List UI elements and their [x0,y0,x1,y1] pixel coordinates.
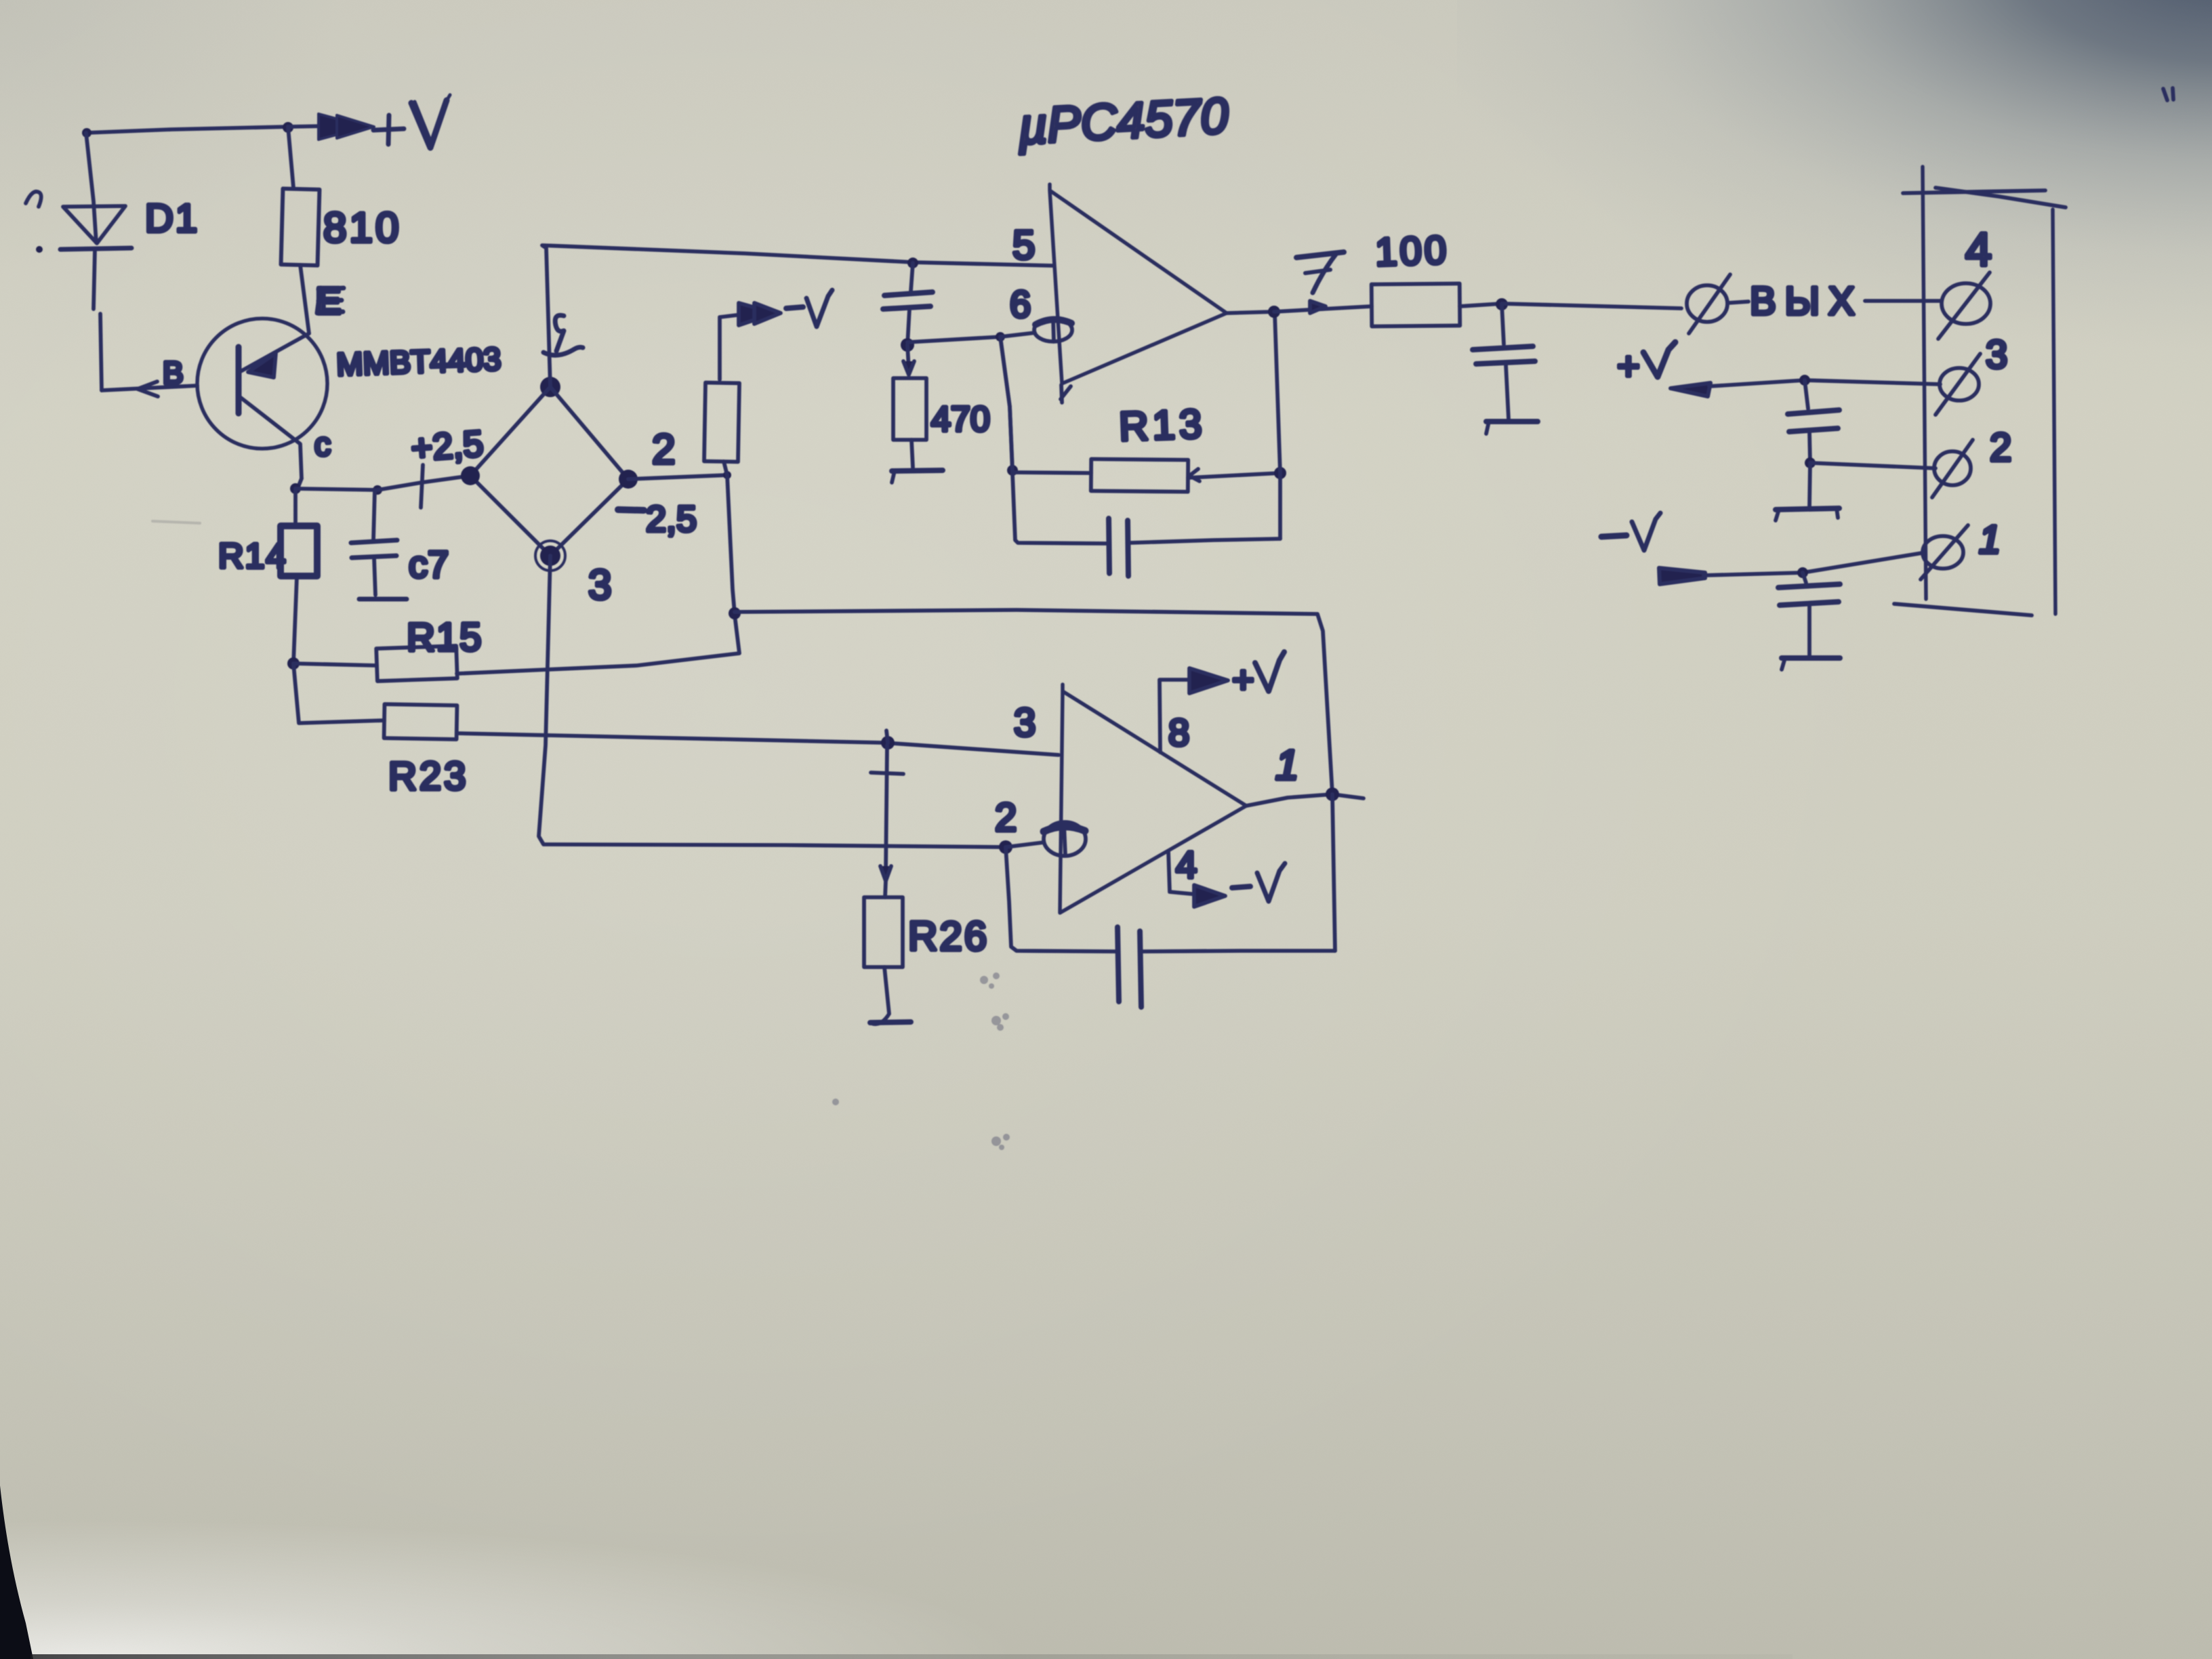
wire: D1 cathode down to base corner [94,250,102,390]
ground (below R26) [872,967,889,1024]
ground stub below pin2 node [1809,463,1810,507]
photodiode D1 cathode bar [60,248,131,249]
node: R13 right [1274,467,1286,479]
dark table edge bottom-left [0,1486,33,1659]
transistor collector segment [239,396,302,478]
resistor R13 [1012,472,1091,473]
node: pin2 junction [1805,457,1816,468]
resistor R15 [293,663,377,665]
node: C7 junction [373,485,382,495]
transistor Q1 MMBT4403 circle [197,319,327,449]
svg-text:c: c [314,427,331,463]
node: pin2 junction (U1B) [999,840,1012,854]
light arrow mark near D1 [26,192,41,207]
label 7 [1296,252,1344,258]
node: R13 left [1007,465,1018,476]
transistor emitter segment with arrow (PNP) [241,333,309,371]
svg-text:MMBT4403: MMBT4403 [335,341,501,382]
wire: R15 right lead up to feedback junction [457,615,739,674]
wire: -V to pin 1 [1704,553,1922,575]
wire: ВЫХ to connector pin 4 [1865,299,1942,303]
faint crease mark [152,521,200,523]
svg-text:+: + [1617,344,1640,388]
stray pen marks top right [2163,88,2173,100]
capacitor C7 [373,490,375,540]
wire: node1 up and right to op-amp pin 5 [542,245,1052,387]
wire: junction right to pin6 [907,337,1000,342]
wire: +V to pin 3 [1709,380,1940,386]
svg-text:µPC4570: µPC4570 [1016,87,1229,155]
svg-text:c7: c7 [409,543,449,586]
svg-text:1: 1 [1979,518,2001,562]
resistor (-V branch, unlabeled) [704,383,739,462]
wire: blob down to R26 with tick and arrow [886,745,887,874]
node: -V cap junction [1797,567,1808,578]
node: pin6/470 junction [901,338,914,352]
svg-text:2: 2 [1990,426,2011,470]
svg-text:R13: R13 [1118,401,1206,449]
wire: node2 right to -V branch [628,475,727,479]
bridge left vertex node [461,466,480,485]
wire: R14 bottom to R15 node [293,577,297,663]
U1B output wire [1246,794,1364,806]
down arrow into 470 [907,345,909,369]
svg-text:2,5: 2,5 [646,499,697,539]
wire: output down to feedback rail [1332,794,1335,951]
wire: pin6 junction down to R13 left node [1000,337,1012,470]
capacitor (-V rail) [1803,573,1806,583]
connector pin 1 circle [1923,536,1963,569]
bridge sensor: node 1 top vertex [540,377,560,397]
capacitor (pin5 to pin6) [911,263,913,291]
label +V (top left) [373,115,404,144]
wire: collector node right to C7 node [295,489,377,490]
svg-text:B: B [163,355,184,390]
connector pin 3 circle [1940,368,1979,401]
svg-text:R26: R26 [908,914,989,959]
label 1 (bridge top) [555,315,564,351]
label -V (U1B) [1232,886,1250,888]
feedback capacitor (U1B) [1006,847,1118,951]
transistor base wire with arrowhead [102,386,197,390]
svg-text:3: 3 [1014,701,1036,745]
bridge node 3 bottom vertex [540,546,560,566]
U1B pin 8 stub and +V arrow [1160,680,1194,752]
node: U1B output junction [1326,787,1339,801]
wire: collector down to R14 node [295,478,302,489]
svg-text:2: 2 [652,426,675,473]
svg-text:+: + [1232,658,1254,701]
svg-text:D1: D1 [145,197,199,241]
svg-text:5: 5 [1012,222,1035,268]
capacitor (+V rail) [1805,380,1808,409]
op-amp U1A triangle [1050,184,1227,384]
label -2,5 [618,510,644,510]
photodiode D1 triangle [63,206,125,243]
op-amp U1A input tick bottom-left [1061,385,1071,403]
connector pin 2 circle [1934,451,1971,485]
wire: R15 node down to R23 [293,663,384,723]
+V supply arrow (connector side) [1671,383,1711,396]
node: pin3 blob junction [881,736,895,750]
svg-text:470: 470 [931,400,990,439]
-V supply branch: arrow corner [720,314,742,380]
svg-text:3: 3 [1986,333,2007,377]
bridge edges (diamond) [470,387,628,479]
svg-text:4: 4 [1176,843,1197,886]
svg-text:R23: R23 [388,754,468,798]
wire: junction to pin 2 [1810,463,1935,468]
filter capacitor to ground [1502,304,1504,344]
svg-text:1: 1 [1275,742,1298,789]
wire: R23 right lead to op-amp2 pin3 [457,733,1059,755]
-V supply arrow (connector side) [1659,568,1705,584]
node: collector junction [290,483,301,494]
svg-text:R15: R15 [407,615,483,659]
power arrow +V (top left) [288,126,324,127]
resistor R14 (bold box) [293,489,298,525]
node: pin5 junction [907,258,918,268]
svg-text:8: 8 [1168,711,1189,754]
wire: C7 node to bridge left vertex with +2,5 tick [377,476,470,490]
wire: output to resistor 100 with arrow tick [1274,306,1372,312]
thin dark bottom edge [30,1654,1793,1659]
-V arrowhead [739,303,775,325]
U1B pin 4 stub and -V arrow [1168,851,1198,895]
node: +V cap junction [1799,375,1810,386]
resistor 810 (emitter resistor) [281,188,320,265]
label -V (bridge branch) [786,307,803,308]
node ВЫХ (output) circle-slash [1687,285,1727,322]
wire: filter node to ВЫХ circle [1502,304,1681,308]
wire: node3 down then right to op-amp2 pin 2 [539,556,1006,847]
bridge node 2 right vertex [619,470,638,489]
svg-text:3: 3 [588,562,611,609]
wire: long feedback rail to op-amp2 output [735,610,1332,794]
resistor R26 [864,897,903,967]
wire: resistor to node2 junction then down to feedback junction [724,462,735,613]
op-amp U1A output pin 7 [1227,312,1274,313]
connector J1 outline [1923,167,1926,599]
feedback capacitor (U1A) [1000,337,1107,544]
svg-text:2: 2 [995,796,1017,840]
svg-text:810: 810 [323,205,401,251]
node: R15/feedback junction [729,607,741,619]
node: +V rail left corner [82,128,91,138]
op-amp U1B triangle [1060,684,1246,913]
resistor 470 [893,378,926,440]
node: +V junction [283,122,293,133]
node: filter junction [1496,298,1508,310]
ground (below 470) [912,440,913,468]
wire: 810 to emitter [300,265,309,333]
op-amp U1B inverting bubble pin 2 [1006,842,1044,847]
resistor R23 [384,704,457,739]
svg-text:+2,5: +2,5 [410,424,485,469]
svg-text:R14: R14 [218,537,287,576]
svg-text:ВЫХ: ВЫХ [1750,279,1864,323]
photodiode D1: left branch wire from +V rail down [86,133,96,243]
wire: feedback right vertical up to output [1275,313,1280,539]
node: R15 junction [287,657,300,670]
resistor 100 [1372,283,1460,326]
op-amp U1A inverting input bubble pin 6 [1034,319,1072,342]
wire: 100 right lead to filter node [1460,304,1502,306]
svg-text:6: 6 [1010,283,1031,325]
wire: +V junction down to resistor 810 [288,127,293,188]
svg-text:4: 4 [1965,223,1992,276]
smudge marks [832,972,1010,1150]
svg-text:100: 100 [1374,228,1450,274]
connector pin 4 circle [1942,283,1990,324]
wire: top-left +V rail from D1 branch to +V arrow [86,127,288,133]
transistor base bar [236,347,242,413]
